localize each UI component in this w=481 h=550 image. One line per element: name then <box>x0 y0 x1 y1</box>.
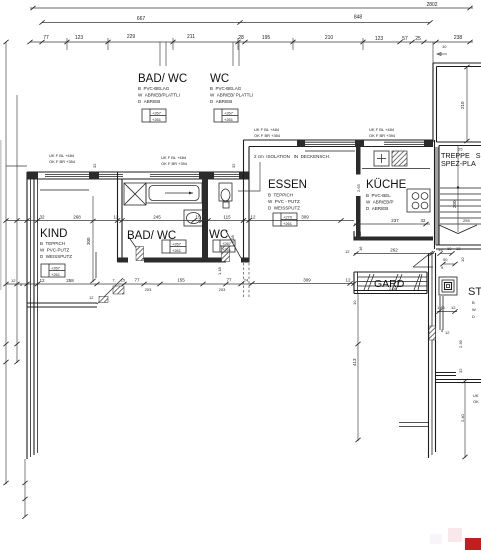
step between sections <box>244 140 250 179</box>
svg-text:238: 238 <box>454 35 463 41</box>
svg-text:2.26: 2.26 <box>389 286 398 291</box>
GARD closet <box>354 272 427 294</box>
door KIND-top <box>89 252 124 304</box>
svg-text:+267: +267 <box>152 111 162 116</box>
svg-text:268: 268 <box>73 215 81 220</box>
svg-text:300: 300 <box>86 237 91 245</box>
room label ST (cut) <box>468 286 481 319</box>
svg-text:12: 12 <box>89 295 94 300</box>
wall bottom of BAD/WC and WC <box>118 258 250 263</box>
room label KIND top <box>40 228 72 277</box>
legend BAD/WC top <box>138 73 187 122</box>
wall piers <box>89 172 99 180</box>
stair hall bottom wall <box>436 245 481 249</box>
dimension line 2802 top <box>30 2 473 10</box>
svg-text:10: 10 <box>447 246 452 251</box>
svg-text:25: 25 <box>415 36 421 42</box>
isolation note ESSEN <box>238 154 330 191</box>
cooktop <box>407 189 430 212</box>
svg-text:12: 12 <box>11 278 16 283</box>
room label WC <box>209 229 235 252</box>
svg-text:D: D <box>472 314 475 319</box>
svg-text:W: W <box>472 307 476 312</box>
svg-text:+261: +261 <box>222 247 232 252</box>
svg-text:W PVC-PUTZ: W PVC-PUTZ <box>40 248 69 253</box>
svg-text:28: 28 <box>238 35 244 41</box>
doorway threshold right <box>399 423 429 427</box>
right vertical dim 240 <box>460 383 479 459</box>
wall below shaft <box>429 296 443 340</box>
svg-text:16: 16 <box>358 246 363 251</box>
dim line y220 32 268 12 245 15 115 12 <box>6 215 354 223</box>
door WC <box>222 231 242 262</box>
shaft nested squares <box>439 277 457 295</box>
wall BAD / WC <box>202 179 208 263</box>
svg-text:12: 12 <box>445 330 450 335</box>
svg-text:+261: +261 <box>152 117 162 122</box>
svg-text:UK F BL +484: UK F BL +484 <box>161 155 187 160</box>
room label BAD/WC <box>127 230 186 253</box>
svg-text:12: 12 <box>345 249 350 254</box>
svg-text:OK F BR +394: OK F BR +394 <box>369 133 396 138</box>
svg-text:210: 210 <box>460 101 465 109</box>
svg-text:UK F BL +484: UK F BL +484 <box>369 127 395 132</box>
wall ESSEN / KUECHE <box>356 147 361 238</box>
stair tower top right <box>433 63 481 146</box>
svg-text:12: 12 <box>113 215 119 220</box>
window band KIND top <box>45 174 89 176</box>
svg-text:10: 10 <box>352 300 357 305</box>
svg-text:2.28: 2.28 <box>230 234 235 243</box>
svg-text:OK F BR +354: OK F BR +354 <box>254 133 281 138</box>
svg-text:+261: +261 <box>283 221 293 226</box>
label TREPPE SPEZ-PLAN <box>441 151 481 168</box>
svg-text:KÜCHE: KÜCHE <box>366 179 407 191</box>
svg-text:50: 50 <box>443 257 448 262</box>
window band BAD <box>150 174 199 176</box>
svg-text:W ABRIEB/PLATTLI: W ABRIEB/PLATTLI <box>138 93 180 98</box>
wall bottom KIND-top <box>27 303 97 307</box>
svg-text:D ABRIEB: D ABRIEB <box>138 99 160 104</box>
svg-text:+261: +261 <box>224 117 234 122</box>
svg-text:ESSEN: ESSEN <box>268 179 307 191</box>
room label KUECHE <box>366 179 407 211</box>
svg-text:2.63: 2.63 <box>356 183 361 192</box>
svg-text:32: 32 <box>39 215 45 220</box>
svg-text:77: 77 <box>43 35 49 41</box>
svg-text:KIND: KIND <box>40 228 67 240</box>
svg-text:211: 211 <box>187 34 195 40</box>
door BAD/WC <box>128 236 144 261</box>
stair direction V <box>439 225 477 234</box>
svg-text:12: 12 <box>451 305 456 310</box>
room label ESSEN <box>268 179 307 226</box>
svg-text:1.18: 1.18 <box>217 266 222 275</box>
washbasin BAD <box>184 210 203 226</box>
dim line y283 GARD 309 12 <box>249 278 356 286</box>
svg-text:32: 32 <box>231 163 236 168</box>
svg-text:115: 115 <box>223 215 231 220</box>
svg-text:255: 255 <box>463 218 470 223</box>
kitchen bottom wall <box>354 231 433 251</box>
left vertical dimension line A <box>5 42 7 484</box>
svg-text:25: 25 <box>458 147 463 152</box>
vertical dim 300 in KIND top <box>86 196 96 283</box>
stair center line with dim 200 <box>452 146 463 232</box>
svg-text:210: 210 <box>325 35 334 41</box>
svg-text:UK F BL +484: UK F BL +484 <box>49 153 75 158</box>
svg-text:24: 24 <box>244 278 249 283</box>
svg-text:B PVC-BELAG: B PVC-BELAG <box>138 86 170 91</box>
svg-text:BAD/ WC: BAD/ WC <box>138 73 187 85</box>
svg-text:WC: WC <box>210 73 229 85</box>
kitchen counter line <box>362 168 430 170</box>
svg-text:203: 203 <box>219 287 226 292</box>
svg-text:7,: 7, <box>112 278 115 283</box>
svg-text:OK F BR +394: OK F BR +394 <box>161 161 188 166</box>
staircase treads <box>440 188 481 224</box>
svg-text:12: 12 <box>456 246 461 251</box>
shower box BAD <box>124 183 146 205</box>
svg-text:195: 195 <box>262 35 271 41</box>
svg-text:D WEISSPUTZ: D WEISSPUTZ <box>268 206 300 211</box>
exterior wall left <box>27 172 38 459</box>
window band WC <box>214 174 239 176</box>
svg-text:2.40: 2.40 <box>460 413 465 422</box>
svg-text:32: 32 <box>92 163 97 168</box>
svg-text:W ABRIEB/ PLATTLI: W ABRIEB/ PLATTLI <box>210 93 253 98</box>
svg-text:155: 155 <box>177 278 185 283</box>
window sill line KIND <box>40 189 89 191</box>
svg-text:245: 245 <box>153 215 161 220</box>
svg-text:UK: UK <box>473 393 479 398</box>
scan edge smudge <box>0 140 2 290</box>
svg-text:10: 10 <box>442 44 447 49</box>
svg-text:262: 262 <box>390 248 398 253</box>
left ticks <box>3 40 27 519</box>
svg-text:B PVC-BEL: B PVC-BEL <box>366 193 391 198</box>
svg-text:SPEZ-PLA: SPEZ-PLA <box>441 159 476 168</box>
svg-text:667: 667 <box>137 16 146 22</box>
svg-text:B: B <box>472 300 475 305</box>
kitchen dim 237 32 <box>353 218 430 226</box>
svg-text:203: 203 <box>145 287 152 292</box>
svg-text:+267: +267 <box>51 266 61 271</box>
svg-text:15: 15 <box>195 215 201 220</box>
svg-text:2 cm ISOLATION IN DECKENSC: 2 cm ISOLATION IN DECKENSCH. <box>254 154 330 159</box>
redmark stamp bottom right <box>430 528 481 550</box>
svg-text:32: 32 <box>458 368 463 373</box>
svg-text:309: 309 <box>301 215 309 220</box>
svg-text:15: 15 <box>121 278 126 283</box>
svg-text:237: 237 <box>391 218 399 223</box>
svg-text:+267: +267 <box>224 111 234 116</box>
svg-text:258: 258 <box>66 278 74 283</box>
left vertical dimension line B <box>16 95 18 363</box>
svg-text:848: 848 <box>354 15 363 21</box>
dim line y253 entry 262 <box>345 248 435 256</box>
svg-text:WC: WC <box>209 229 228 241</box>
svg-text:12: 12 <box>39 278 45 283</box>
svg-text:309: 309 <box>303 278 311 283</box>
wall KUECHE / stair hall <box>435 140 440 249</box>
dimension line 667 / 848 <box>39 15 432 25</box>
axis leaders below top dims <box>160 42 447 66</box>
flat right wall <box>429 253 436 458</box>
svg-text:12: 12 <box>357 231 362 236</box>
window band KUECHE <box>384 141 424 143</box>
svg-text:+270: +270 <box>283 215 293 220</box>
svg-text:W PVC - PUTZ: W PVC - PUTZ <box>268 199 300 204</box>
svg-text:229: 229 <box>127 34 136 40</box>
svg-text:B PVC-BELAG: B PVC-BELAG <box>210 86 242 91</box>
legend WC top <box>210 73 253 122</box>
dims near shaft <box>436 305 457 335</box>
svg-text:12: 12 <box>250 215 256 220</box>
svg-text:B TEPPICH: B TEPPICH <box>268 193 293 198</box>
dim line y284 corridor <box>6 278 250 293</box>
wall KIND-top / BAD <box>118 172 123 262</box>
svg-text:+261: +261 <box>51 272 61 277</box>
svg-text:10: 10 <box>460 257 465 262</box>
corridor vertical line x358 <box>352 293 361 442</box>
bathtub <box>146 183 202 203</box>
svg-text:2.39: 2.39 <box>458 339 463 348</box>
toilet WC <box>219 183 232 208</box>
svg-text:ST: ST <box>468 286 481 298</box>
svg-text:12: 12 <box>345 278 351 283</box>
exterior wall top-left section <box>27 172 249 190</box>
svg-text:123: 123 <box>375 36 384 42</box>
svg-text:UK F BL +484: UK F BL +484 <box>254 127 280 132</box>
svg-text:W ABRIEB/P: W ABRIEB/P <box>366 200 394 205</box>
svg-text:D ABRIEB: D ABRIEB <box>366 206 388 211</box>
svg-text:77: 77 <box>134 278 140 283</box>
svg-text:B TEPPICH: B TEPPICH <box>40 241 65 246</box>
svg-text:57: 57 <box>402 36 408 42</box>
dimension line segments 77 123 229 211 28 195 210 123 57 25 238 <box>27 34 473 50</box>
entrance small dims <box>437 246 465 270</box>
exterior wall top ESSEN/KUECHE section <box>244 140 434 151</box>
svg-text:413: 413 <box>352 358 357 366</box>
svg-text:123: 123 <box>75 35 84 41</box>
window band ESSEN <box>305 141 355 143</box>
svg-text:+261: +261 <box>172 248 182 253</box>
svg-text:77: 77 <box>226 278 232 283</box>
left vertical dimension line C below building <box>24 459 26 517</box>
UK/OK level texts upper row <box>49 127 396 168</box>
entrance door swing <box>413 251 433 267</box>
wall WC / ESSEN <box>244 172 250 298</box>
svg-text:2802: 2802 <box>426 2 437 8</box>
svg-text:OK: OK <box>473 399 479 404</box>
window band 2 <box>99 174 123 176</box>
leader line left of wall <box>6 165 27 167</box>
svg-text:D ABRIEB: D ABRIEB <box>210 99 232 104</box>
svg-text:OK F BR +354: OK F BR +354 <box>49 159 76 164</box>
svg-text:32: 32 <box>420 218 426 223</box>
stub wall right middle <box>436 339 481 383</box>
svg-text:D WEISSPUTZ: D WEISSPUTZ <box>40 254 72 259</box>
svg-text:200: 200 <box>452 200 457 208</box>
kitchen sink <box>374 151 389 166</box>
kitchen stove hatched <box>392 151 407 166</box>
svg-text:+267: +267 <box>172 242 182 247</box>
